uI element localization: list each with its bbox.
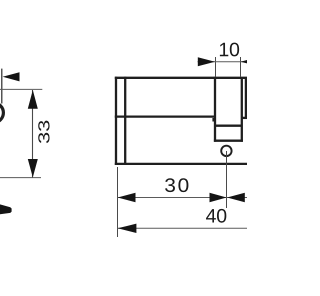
label 30 (165, 178, 188, 192)
dim 30: right arrow (points right) (210, 193, 227, 202)
cam right edge (241, 77, 243, 142)
chained dim arrow (points left at screw centreline) (227, 193, 245, 202)
middle line end tick (212, 118, 214, 122)
dim 40: dimension line (117, 227, 247, 229)
face plate second line (124, 77, 126, 165)
label 10 (220, 43, 239, 57)
label 33 (rotated) (38, 121, 49, 143)
dimension arrow (right-pointing, cut dimension at bottom-left) (0, 204, 12, 214)
extension line bottom of face (y=177.6) (0, 177, 41, 179)
dim 10: left arrow (points right) (198, 57, 215, 66)
dimension line 33 (vertical) (32, 90, 34, 178)
right-of-cam vertical fragment (245, 77, 247, 119)
cylinder body outline: top edge (115, 77, 247, 79)
dim 10: dimension line (198, 61, 248, 63)
dim 30: left arrow (points left) (118, 193, 136, 202)
cylinder body outline: left face edge (115, 77, 117, 165)
dim 30: dimension line (117, 197, 247, 199)
body centre parting line (115, 115, 216, 117)
label 40 (206, 209, 226, 223)
dim 10: right extension line (240, 57, 242, 77)
dim 40: left arrow (points left) (118, 224, 137, 233)
dim 10: right arrow (points left, cut at edge) (241, 57, 258, 66)
fixing screw hole circle (221, 146, 231, 156)
right-of-cam horizontal stub (242, 117, 247, 119)
screw hole centreline (226, 151, 228, 208)
arrow down (33 bottom) (28, 159, 38, 177)
dimension arrow (left-pointing, cut dimension at top-left) (3, 72, 20, 81)
dim 10: left extension line (215, 57, 217, 77)
dim 30/40: left extension line (117, 167, 119, 237)
cylinder body outline: bottom edge (115, 163, 247, 165)
cam inner line (215, 125, 242, 127)
arrow up (33 top) (28, 90, 38, 109)
cam bottom edge (214, 140, 243, 142)
body right edge / cam left edge (214, 77, 216, 142)
front-view extension line (vertical, left edge) (1, 69, 3, 104)
front-view face circle (cut at left edge) (0, 103, 3, 123)
extension line top of face (y=89.4) (0, 88, 42, 90)
